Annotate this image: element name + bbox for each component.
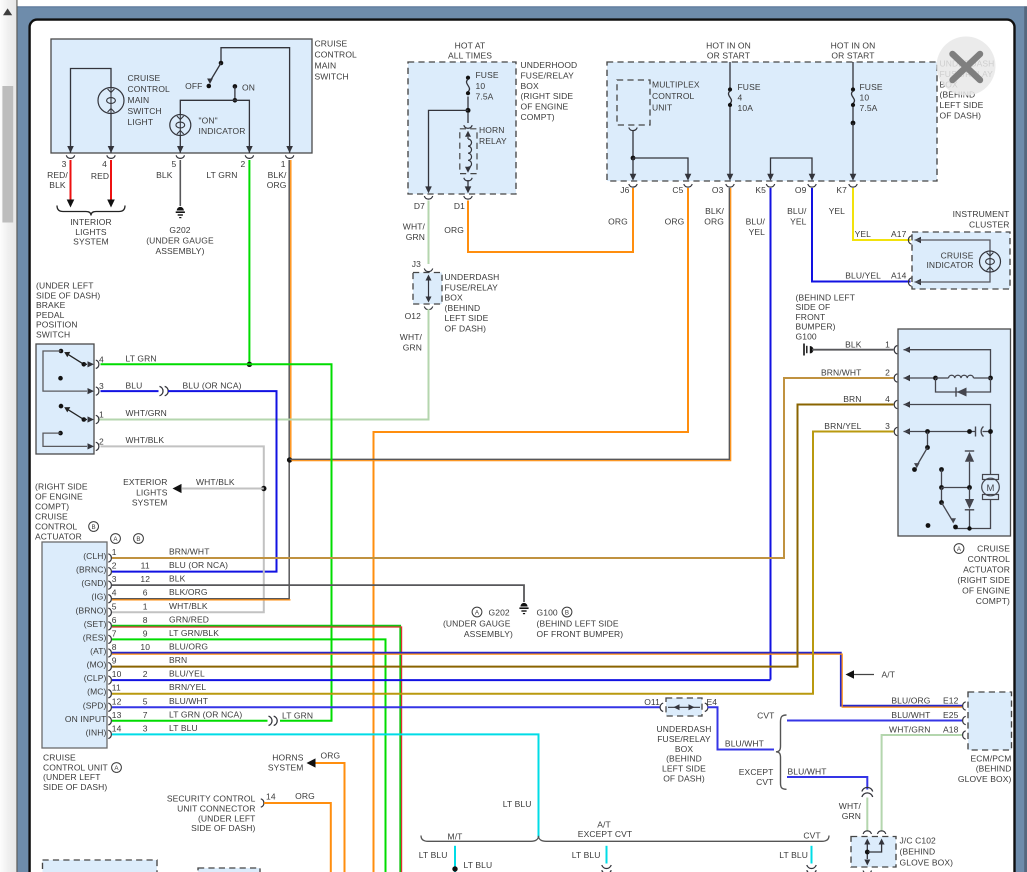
- svg-text:E25: E25: [943, 710, 959, 720]
- wire BLU/YEL from K5 down to (CLP) row: [770, 188, 772, 680]
- pin 1 of main switch: arrow + cup: [286, 146, 293, 153]
- svg-text:BUMPER): BUMPER): [796, 322, 836, 332]
- LT BLU stub left: [454, 846, 456, 872]
- inline connector on vertical wire: [862, 787, 873, 791]
- svg-text:B: B: [565, 609, 569, 616]
- connector row 14: (INH) LT BLU: [108, 730, 111, 738]
- svg-text:RED/: RED/: [47, 170, 68, 180]
- svg-text:OF DASH): OF DASH): [663, 774, 705, 784]
- connector row 1: (CLH) BRN/WHT: [108, 554, 111, 562]
- svg-text:11: 11: [141, 561, 150, 571]
- svg-text:10: 10: [140, 642, 150, 652]
- svg-text:SYSTEM: SYSTEM: [268, 763, 304, 773]
- scrollbar up arrow: [3, 8, 12, 15]
- svg-text:HOT AT: HOT AT: [455, 41, 486, 51]
- connector row 9: (MO) BRN: [108, 662, 111, 670]
- svg-text:FUSE: FUSE: [860, 82, 883, 92]
- svg-text:CONTROL: CONTROL: [315, 50, 358, 60]
- underdash fuse/relay box (top): [607, 62, 937, 181]
- brake switch pins arrows/cups/numbers: [88, 361, 95, 367]
- svg-text:12: 12: [112, 696, 122, 706]
- scrollbar thumb: [2, 86, 13, 223]
- svg-text:LIGHTS: LIGHTS: [136, 487, 168, 497]
- svg-text:ORG: ORG: [444, 225, 464, 235]
- svg-text:9: 9: [143, 628, 148, 638]
- wire BLK row3 to ground G202: [112, 585, 524, 602]
- wire LT GRN/BLK row7: [112, 639, 386, 872]
- svg-text:(BRNC): (BRNC): [76, 565, 107, 575]
- svg-text:RELAY: RELAY: [479, 136, 507, 146]
- svg-text:CRUISE: CRUISE: [128, 73, 161, 83]
- svg-text:CONTROL: CONTROL: [128, 84, 171, 94]
- ECM cups E12 E25 A18: [963, 702, 966, 710]
- svg-text:(RIGHT SIDE: (RIGHT SIDE: [521, 91, 574, 101]
- svg-text:3: 3: [143, 723, 148, 733]
- svg-text:WHT/BLK: WHT/BLK: [196, 477, 235, 487]
- junction dot BLK/ORG: [287, 457, 292, 462]
- svg-text:BOX: BOX: [445, 293, 464, 303]
- svg-text:OR START: OR START: [707, 51, 750, 61]
- svg-text:WHT/: WHT/: [839, 801, 862, 811]
- connector row 12: (SPD) BLU/WHT: [108, 703, 111, 711]
- svg-text:COMPT): COMPT): [35, 502, 69, 512]
- svg-text:(RES): (RES): [83, 632, 107, 642]
- svg-text:COMPT): COMPT): [521, 112, 555, 122]
- wire LT GRN brake pin4 to the right and down: [101, 364, 332, 721]
- svg-text:ORG: ORG: [321, 751, 341, 761]
- svg-text:ORG: ORG: [267, 180, 287, 190]
- svg-text:(UNDER GAUGE: (UNDER GAUGE: [146, 235, 214, 245]
- svg-text:OR START: OR START: [831, 51, 874, 61]
- svg-text:LT GRN: LT GRN: [126, 354, 157, 364]
- svg-text:GLOVE BOX): GLOVE BOX): [900, 858, 954, 868]
- svg-text:YEL: YEL: [749, 227, 766, 237]
- actuator interior: pin4 rail to motor: [904, 405, 991, 475]
- wire WHT/GRN below connector to J/C C102: [866, 798, 868, 831]
- svg-text:CRUISE: CRUISE: [35, 512, 68, 522]
- svg-text:ASSEMBLY): ASSEMBLY): [155, 246, 204, 256]
- svg-text:BRN/WHT: BRN/WHT: [169, 547, 210, 557]
- frame right dark edge: [1024, 6, 1027, 872]
- svg-text:BLK/ORG: BLK/ORG: [169, 587, 208, 597]
- svg-text:BLK: BLK: [156, 170, 173, 180]
- svg-text:M/T: M/T: [448, 831, 463, 841]
- svg-text:LT BLU: LT BLU: [572, 850, 601, 860]
- wire fuse to junction: [467, 97, 469, 111]
- svg-text:COMPT): COMPT): [976, 596, 1010, 606]
- svg-text:SIDE OF DASH): SIDE OF DASH): [43, 782, 107, 792]
- svg-text:(IG): (IG): [91, 592, 106, 602]
- svg-text:E12: E12: [943, 696, 959, 706]
- svg-text:BLU/: BLU/: [787, 206, 807, 216]
- svg-text:3: 3: [62, 159, 67, 169]
- connector cups J6 C5 O3 K5 O9 K7: [629, 184, 637, 187]
- svg-text:7.5A: 7.5A: [860, 103, 878, 113]
- label (A) CRUISE CONTROL ACTUATOR (RIGHT SIDE OF ENGINE COMPT): [954, 544, 964, 554]
- svg-text:LT GRN: LT GRN: [282, 711, 313, 721]
- svg-text:(BEHIND: (BEHIND: [900, 847, 936, 857]
- svg-text:EXCEPT: EXCEPT: [739, 767, 774, 777]
- svg-text:LT GRN (OR NCA): LT GRN (OR NCA): [169, 709, 242, 719]
- svg-text:SIDE OF DASH): SIDE OF DASH): [36, 290, 100, 300]
- K5/O9 internal link: [771, 158, 813, 174]
- svg-text:GRN: GRN: [406, 232, 425, 242]
- svg-text:EXTERIOR: EXTERIOR: [123, 477, 167, 487]
- svg-text:BLU (OR NCA): BLU (OR NCA): [183, 381, 242, 391]
- wire BRN/YEL row11 to actuator pin3: [112, 432, 894, 694]
- svg-text:G100: G100: [796, 331, 817, 341]
- svg-text:BLK: BLK: [49, 180, 66, 190]
- underhood fuse/relay box: [408, 62, 516, 194]
- wire WHT/GRN A18 to J/C C102: [882, 735, 962, 831]
- svg-text:LIGHTS: LIGHTS: [75, 227, 107, 237]
- svg-text:OF ENGINE: OF ENGINE: [35, 492, 83, 502]
- svg-text:WHT/GRN: WHT/GRN: [889, 725, 930, 735]
- actuator interior: relay coil with flyback diode: [904, 377, 936, 379]
- svg-text:WHT/BLK: WHT/BLK: [126, 435, 165, 445]
- svg-text:UNDERDASH: UNDERDASH: [445, 272, 500, 282]
- svg-text:SWITCH: SWITCH: [36, 330, 70, 340]
- svg-text:INDICATOR: INDICATOR: [926, 260, 973, 270]
- svg-text:(MO): (MO): [87, 660, 107, 670]
- svg-text:BLU/YEL: BLU/YEL: [845, 271, 881, 281]
- svg-text:BLU: BLU: [126, 381, 143, 391]
- svg-text:10: 10: [476, 81, 486, 91]
- svg-text:LT BLU: LT BLU: [419, 850, 448, 860]
- svg-text:FUSE/RELAY: FUSE/RELAY: [445, 282, 499, 292]
- svg-text:(BEHIND LEFT: (BEHIND LEFT: [796, 293, 856, 303]
- wire ORG from C5 down-left-down: [374, 188, 689, 872]
- wire BRN/WHT row1 to actuator pin2: [112, 378, 894, 558]
- svg-text:FUSE: FUSE: [476, 70, 499, 80]
- connector row 5: (BRNO) WHT/BLK: [108, 608, 111, 616]
- svg-text:BRAKE: BRAKE: [36, 300, 66, 310]
- brace interior lights: [57, 206, 125, 216]
- svg-text:(BRNO): (BRNO): [76, 605, 107, 615]
- connector row 13: ON INPUT LT GRN (OR NCA): [108, 717, 111, 725]
- middle switch branch: [939, 467, 944, 472]
- junction dot WHT/BLK: [261, 486, 266, 491]
- cluster internal wire + cruise indicator lamp: [908, 236, 911, 244]
- wire BRN row9 to actuator pin4: [112, 405, 894, 667]
- A/T pointer annotation: [846, 670, 855, 678]
- wire LT GRN row13 (ON INPUT) with inline connector: [112, 720, 268, 722]
- brake switch lower contacts: [59, 404, 64, 409]
- svg-text:LT BLU: LT BLU: [503, 799, 532, 809]
- svg-text:2: 2: [143, 669, 148, 679]
- svg-text:1: 1: [112, 547, 117, 557]
- svg-text:4: 4: [885, 394, 890, 404]
- svg-text:(UNDER GAUGE: (UNDER GAUGE: [443, 619, 511, 629]
- svg-text:CRUISE: CRUISE: [977, 544, 1010, 554]
- svg-text:4: 4: [738, 93, 743, 103]
- svg-text:(UNDER LEFT: (UNDER LEFT: [43, 772, 101, 782]
- svg-text:14: 14: [112, 723, 122, 733]
- wire LT GRN from main switch pin2 down to junction: [248, 160, 250, 364]
- svg-text:BRN/WHT: BRN/WHT: [821, 368, 862, 378]
- svg-text:ON INPUT: ON INPUT: [65, 714, 107, 724]
- svg-text:(RIGHT SIDE: (RIGHT SIDE: [35, 482, 88, 492]
- svg-text:7: 7: [143, 710, 148, 720]
- svg-text:HORN: HORN: [479, 125, 505, 135]
- svg-text:CONTROL: CONTROL: [652, 91, 695, 101]
- svg-text:CONTROL: CONTROL: [968, 554, 1011, 564]
- svg-text:CRUISE: CRUISE: [315, 39, 348, 49]
- wire BLU/YEL from O9 to instrument cluster A14: [812, 188, 911, 282]
- svg-text:BLK/: BLK/: [705, 206, 724, 216]
- svg-text:CRUISE: CRUISE: [43, 753, 76, 763]
- svg-text:ASSEMBLY): ASSEMBLY): [464, 629, 513, 639]
- svg-text:BLU (OR NCA): BLU (OR NCA): [169, 560, 228, 570]
- connector row 3: (GND) BLK: [108, 581, 111, 589]
- svg-text:(CLH): (CLH): [83, 551, 106, 561]
- svg-text:GRN: GRN: [842, 811, 861, 821]
- svg-text:FRONT: FRONT: [796, 312, 826, 322]
- svg-text:B: B: [136, 536, 140, 543]
- svg-text:14: 14: [266, 792, 276, 802]
- svg-text:YEL: YEL: [829, 206, 846, 216]
- switch lever OFF/ON: [219, 61, 224, 66]
- svg-text:INDICATOR: INDICATOR: [199, 126, 246, 136]
- wire LT BLU row14 down to M/T rail: [112, 734, 539, 837]
- svg-text:UNDERHOOD: UNDERHOOD: [521, 60, 578, 70]
- connector row 11: (MC) BRN/YEL: [108, 690, 111, 698]
- multiplex outlet to J6/C5: [629, 128, 637, 131]
- svg-text:5: 5: [143, 696, 148, 706]
- svg-text:BLU/: BLU/: [746, 217, 766, 227]
- svg-text:ALL TIMES: ALL TIMES: [448, 51, 492, 61]
- multiplex control unit inner box: [617, 80, 650, 125]
- lamp: cruise control main switch light: [98, 88, 124, 114]
- connector row 7: (RES) LT GRN/BLK: [108, 635, 111, 643]
- ground symbol G100 (sideways): [803, 344, 805, 356]
- svg-text:UNIT CONNECTOR: UNIT CONNECTOR: [177, 803, 255, 813]
- svg-text:WHT/BLK: WHT/BLK: [169, 601, 208, 611]
- svg-text:3: 3: [885, 421, 890, 431]
- svg-text:(INH): (INH): [86, 727, 107, 737]
- svg-text:(AT): (AT): [90, 646, 106, 656]
- labels (A) G202 / G100 (B) texts: [472, 607, 482, 617]
- diode branch (up diode, down diode): [965, 450, 974, 452]
- svg-text:UNIT: UNIT: [652, 103, 672, 113]
- svg-text:BLK: BLK: [845, 340, 862, 350]
- diode (flyback, pointing left): [955, 387, 957, 396]
- wire BLK/ORG row4 (gray+orange): [112, 598, 289, 600]
- svg-text:POSITION: POSITION: [36, 320, 78, 330]
- connector cup 14: [261, 799, 264, 807]
- svg-text:(UNDER LEFT: (UNDER LEFT: [198, 813, 256, 823]
- svg-text:K5: K5: [755, 185, 766, 195]
- svg-text:(BEHIND: (BEHIND: [445, 303, 481, 313]
- svg-text:9: 9: [112, 656, 117, 666]
- svg-text:EXCEPT CVT: EXCEPT CVT: [578, 829, 632, 839]
- svg-text:A18: A18: [943, 725, 959, 735]
- svg-text:ORG: ORG: [665, 217, 685, 227]
- svg-text:BOX: BOX: [675, 744, 694, 754]
- wire GRN/RED row6 (green+red): [112, 626, 400, 872]
- svg-text:7: 7: [112, 628, 117, 638]
- connector row 4: (IG) BLK/ORG: [108, 595, 111, 603]
- svg-text:BLU/ORG: BLU/ORG: [169, 642, 208, 652]
- svg-text:A/T: A/T: [882, 670, 896, 680]
- svg-text:3: 3: [112, 574, 117, 584]
- wire BLU/WHT row12 to O11: [112, 706, 661, 708]
- wire branch to D7: [429, 110, 469, 187]
- svg-text:BRN: BRN: [843, 394, 861, 404]
- svg-text:CONTROL: CONTROL: [35, 522, 78, 532]
- instrument cluster box: [912, 232, 1010, 289]
- pin 2 of main switch: arrow + cup: [246, 146, 253, 153]
- svg-text:LEFT SIDE: LEFT SIDE: [445, 313, 489, 323]
- svg-text:1: 1: [99, 410, 104, 420]
- svg-text:1: 1: [281, 159, 286, 169]
- svg-text:O12: O12: [405, 311, 422, 321]
- brake switch upper contacts: [59, 349, 64, 354]
- svg-text:BLU/YEL: BLU/YEL: [169, 669, 205, 679]
- svg-text:BRN: BRN: [169, 655, 187, 665]
- svg-text:M: M: [987, 483, 995, 494]
- junction dot LT GRN: [247, 362, 252, 367]
- svg-text:12: 12: [140, 574, 150, 584]
- svg-text:6: 6: [143, 588, 148, 598]
- svg-text:5: 5: [112, 601, 117, 611]
- wire RED from pin 4: [110, 160, 112, 200]
- svg-text:J3: J3: [412, 259, 421, 269]
- svg-text:BLU/WHT: BLU/WHT: [891, 710, 930, 720]
- svg-text:OF DASH): OF DASH): [445, 324, 487, 334]
- svg-text:LT BLU: LT BLU: [779, 850, 808, 860]
- svg-text:(BEHIND: (BEHIND: [666, 754, 702, 764]
- wire YEL from K7 to instrument cluster A17: [853, 188, 911, 240]
- wire WHT/GRN continues to brake switch pin1: [98, 309, 429, 420]
- actuator interior: pin1 rail: [904, 350, 991, 376]
- svg-text:ACTUATOR: ACTUATOR: [963, 565, 1010, 575]
- clutch switch lever: [927, 432, 929, 448]
- svg-text:ECM/PCM: ECM/PCM: [971, 754, 1012, 764]
- svg-text:MULTIPLEX: MULTIPLEX: [652, 80, 700, 90]
- svg-text:J/C C102: J/C C102: [900, 836, 937, 846]
- svg-text:1: 1: [885, 340, 890, 350]
- svg-text:8: 8: [143, 615, 148, 625]
- svg-text:UNDERDASH: UNDERDASH: [657, 724, 712, 734]
- bottom-middle dashed box (cut off): [198, 868, 260, 872]
- svg-text:ACTUATOR: ACTUATOR: [35, 532, 82, 542]
- svg-text:G202: G202: [489, 608, 510, 618]
- svg-text:LT GRN: LT GRN: [206, 170, 237, 180]
- svg-text:O11: O11: [644, 697, 660, 707]
- svg-text:FUSE/RELAY: FUSE/RELAY: [521, 70, 575, 80]
- wire ORG horns: [316, 763, 345, 872]
- wire BLU/WHT CVT branch to E25: [787, 720, 962, 722]
- cups D7 D1: [424, 196, 432, 199]
- svg-text:SIDE OF: SIDE OF: [796, 302, 831, 312]
- scrollbar separator line: [16, 0, 17, 872]
- wire: pin3 vertical + top link inside switch: [71, 69, 112, 154]
- svg-text:LEFT SIDE: LEFT SIDE: [662, 764, 706, 774]
- svg-text:RED: RED: [91, 171, 109, 181]
- svg-text:A14: A14: [891, 271, 907, 281]
- wire BLU/ORG row8 to ECM E12 (navy+orange): [112, 653, 962, 706]
- cruise control unit connector box: [42, 542, 107, 748]
- wire BLU/YEL row10 (joins K5 wire): [112, 679, 771, 681]
- connector row 8: (AT) BLU/ORG: [108, 649, 111, 657]
- svg-text:INTERIOR: INTERIOR: [70, 217, 112, 227]
- ECM/PCM box: [968, 692, 1012, 750]
- svg-text:1: 1: [143, 601, 148, 611]
- svg-text:BLU/WHT: BLU/WHT: [788, 767, 827, 777]
- ON contact: [233, 84, 238, 89]
- svg-text:YEL: YEL: [790, 217, 807, 227]
- wire: pin1 vertical and top wire to switch pivot: [221, 48, 290, 153]
- svg-text:ORG: ORG: [704, 217, 724, 227]
- svg-text:A17: A17: [891, 229, 907, 239]
- branch to exterior lights system: [182, 488, 264, 490]
- svg-text:7.5A: 7.5A: [476, 91, 494, 101]
- svg-text:E4: E4: [707, 697, 718, 707]
- svg-text:BLK: BLK: [169, 574, 186, 584]
- wire BLU/WHT E4 to brace: [708, 707, 775, 749]
- svg-text:8: 8: [112, 642, 117, 652]
- svg-text:SIDE OF DASH): SIDE OF DASH): [191, 823, 255, 833]
- svg-text:10A: 10A: [738, 103, 754, 113]
- svg-text:D1: D1: [454, 201, 465, 211]
- pin 4 of main switch: arrow + cup: [108, 146, 115, 153]
- pin 5 of main switch: arrow + cup: [177, 146, 184, 153]
- svg-text:BRN/YEL: BRN/YEL: [169, 682, 206, 692]
- svg-text:2: 2: [885, 368, 890, 378]
- svg-text:CVT: CVT: [803, 831, 820, 841]
- svg-text:(BEHIND LEFT SIDE: (BEHIND LEFT SIDE: [537, 619, 619, 629]
- J/C C102 box: [863, 831, 871, 834]
- svg-text:(SET): (SET): [84, 619, 107, 629]
- connector row 6: (SET) GRN/RED: [108, 622, 111, 630]
- svg-text:O3: O3: [712, 185, 724, 195]
- svg-text:WHT/GRN: WHT/GRN: [126, 408, 167, 418]
- svg-text:(SPD): (SPD): [83, 700, 107, 710]
- svg-text:GRN: GRN: [403, 343, 422, 353]
- wire BLK/ORG from O3 to junction at x290 (gray+orange): [290, 188, 730, 459]
- svg-text:PEDAL: PEDAL: [36, 310, 65, 320]
- svg-text:SYSTEM: SYSTEM: [132, 498, 168, 508]
- svg-text:2: 2: [112, 561, 117, 571]
- svg-text:OF ENGINE: OF ENGINE: [962, 586, 1010, 596]
- actuator interior: pin3 node with capacitor: [904, 431, 976, 433]
- svg-text:(CLP): (CLP): [84, 673, 107, 683]
- svg-text:SWITCH: SWITCH: [315, 72, 349, 82]
- svg-text:(GND): (GND): [81, 578, 106, 588]
- svg-text:5: 5: [171, 159, 176, 169]
- svg-text:CONTROL UNIT: CONTROL UNIT: [43, 762, 108, 772]
- actuator pin cups: [894, 346, 897, 354]
- svg-text:SWITCH: SWITCH: [128, 106, 162, 116]
- underdash fuse/relay box small (J3/O12): [413, 273, 442, 305]
- svg-text:CLUSTER: CLUSTER: [969, 220, 1010, 230]
- svg-text:LT BLU: LT BLU: [169, 723, 198, 733]
- svg-text:O9: O9: [795, 185, 807, 195]
- svg-text:CVT: CVT: [757, 711, 774, 721]
- wire BLK G100 to actuator pin 1: [812, 349, 894, 351]
- svg-text:CRUISE: CRUISE: [941, 251, 974, 261]
- svg-text:OF DASH): OF DASH): [940, 111, 982, 121]
- svg-text:YEL: YEL: [855, 229, 872, 239]
- wire WHT/GRN: D7 down through J3/O12 to brake pedal switch pin 1: [428, 201, 430, 265]
- svg-text:LT GRN/BLK: LT GRN/BLK: [169, 628, 219, 638]
- close button circle: [937, 37, 996, 96]
- wire BLK/ORG from main switch pin1 down (gray+orange pair): [288, 160, 290, 599]
- svg-text:ORG: ORG: [608, 217, 628, 227]
- wire BLU/WHT EXCEPT CVT branch down: [787, 777, 867, 790]
- svg-text:LEFT SIDE: LEFT SIDE: [940, 100, 984, 110]
